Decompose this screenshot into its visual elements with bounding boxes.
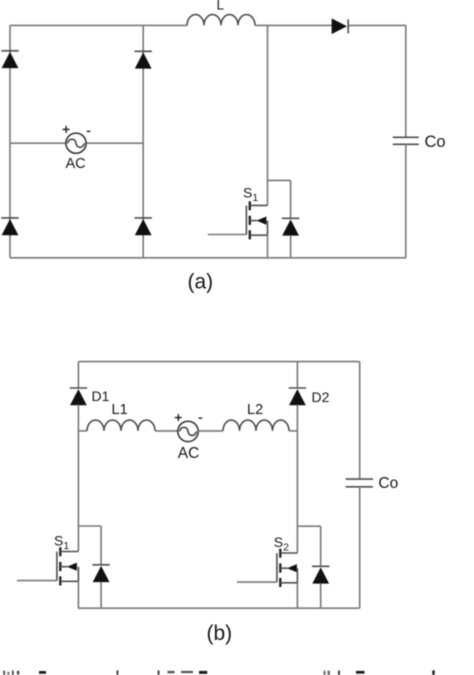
svg-text:Co: Co [378, 475, 398, 492]
capacitor Co (a) [393, 137, 419, 144]
plus polarity mark (b) [175, 414, 182, 421]
wire top rail left segment (a) [10, 24, 187, 26]
minus polarity mark (b) [199, 417, 203, 419]
svg-text:S2: S2 [274, 534, 289, 553]
wire Co branch vertical upper (b) [359, 362, 361, 479]
wire top rail right segment (a) [348, 24, 406, 26]
minus polarity mark (a) [87, 130, 91, 132]
inductor L1 (b) [87, 420, 155, 431]
svg-text:D1: D1 [92, 388, 110, 404]
wire bottom rail (a) [10, 257, 406, 259]
caption fragment right "(b) ..." (cut off at page bottom) [324, 670, 435, 675]
wire left rail upper (b) [77, 362, 79, 388]
wire left rail middle (b) [77, 405, 79, 551]
wire right rail lower (a) [405, 144, 407, 257]
wire switch drain vertical (a) [267, 25, 269, 205]
wire AC branch right (a) [86, 142, 143, 144]
wire middle rail (a) [142, 25, 144, 257]
svg-text:D2: D2 [312, 389, 330, 405]
wire source to bottom rail (a) [267, 235, 269, 258]
inductor L [187, 15, 255, 26]
svg-text:(a): (a) [188, 271, 214, 294]
wire L1 to AC (b) [155, 430, 178, 432]
diode D3 bridge bottom-left (a) [1, 218, 18, 235]
wire body-diode branch of S1 (b) [78, 525, 101, 527]
diode D2 (b) [289, 388, 306, 405]
svg-text:L: L [217, 0, 225, 12]
inductor L2 (b) [223, 420, 289, 431]
wire right rail upper (a) [405, 25, 407, 137]
body diode D3 of S1 (b) [92, 526, 109, 608]
wire Co branch vertical lower (b) [359, 487, 361, 608]
capacitor Co (b) [346, 479, 373, 487]
diode D1 (b) [70, 388, 87, 405]
svg-text:AC: AC [66, 156, 86, 172]
AC source V1 (b) [178, 421, 198, 441]
svg-text:AC: AC [178, 445, 200, 462]
wire L1 junction stub (b) [78, 430, 87, 432]
transistor S1 MOSFET (b) [57, 547, 79, 585]
body diode D4 of S2 (b) [312, 526, 329, 608]
AC source V1 (a) [66, 133, 86, 153]
plus polarity mark (a) [63, 126, 70, 133]
svg-text:Co: Co [425, 133, 446, 151]
wire S2 source to bottom rail (b) [296, 583, 298, 608]
wire gate lead (a) [208, 234, 247, 236]
svg-text:L1: L1 [112, 402, 128, 418]
svg-text:S1: S1 [243, 185, 258, 204]
wire left rail (a) [9, 25, 11, 257]
caption fragment left "(a) Conventional PFC converter" (cut off at page bottom) [3, 670, 207, 675]
wire L2 junction stub (b) [289, 430, 297, 432]
wire AC branch left (a) [10, 142, 66, 144]
body diode D6 of S1 (a) [282, 180, 299, 257]
transistor S1 MOSFET (a) [246, 201, 267, 239]
wire bottom rail (b) [78, 607, 360, 609]
svg-text:S1: S1 [54, 533, 69, 552]
wire right rail upper (b) [296, 362, 298, 388]
wire right rail middle (b) [296, 405, 298, 553]
diode D1 bridge top-left (a) [1, 51, 18, 68]
wire gate lead S2 (b) [237, 581, 277, 583]
wire body-diode branch of S2 (b) [297, 525, 320, 527]
wire AC to L2 (b) [198, 430, 223, 432]
wire top rail mid segment (a) [255, 24, 332, 26]
wire body-diode branch (a) [268, 179, 291, 181]
wire gate lead S1 (b) [17, 580, 57, 582]
diode D2 bridge top-middle (a) [135, 51, 152, 68]
wire S1 source to bottom rail (b) [77, 581, 79, 608]
wire top rail (b) [78, 361, 359, 363]
diode D4 bridge bottom-middle (a) [135, 218, 152, 235]
diode D5 series output diode (a) [332, 18, 349, 34]
svg-text:L2: L2 [247, 402, 263, 418]
transistor S2 MOSFET (b) [277, 549, 298, 587]
svg-text:(b): (b) [207, 622, 233, 645]
